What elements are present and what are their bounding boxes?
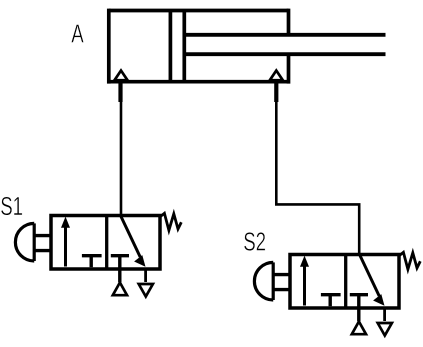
valve S1 return spring: [160, 213, 181, 230]
valve S2 right-box blocked port: [350, 295, 368, 322]
cylinder A piston: [170, 11, 184, 82]
valve S1 left-box blocked port: [82, 256, 102, 268]
valve S2 supply triangle port 1: [352, 322, 366, 335]
valve S2 exhaust stub port 3: [383, 308, 386, 321]
valve S1 right-box exhaust path arrow: [121, 217, 146, 267]
valve S1 right-box blocked port: [111, 256, 129, 283]
valve S2 left-box flow arrow: [300, 256, 309, 306]
valve S1 pushbutton actuator: [15, 223, 51, 261]
valve S2 return spring: [399, 252, 420, 269]
wire cylinder-left-port to S1 port 2: [120, 100, 123, 216]
valve S1 left-box flow arrow: [61, 217, 70, 267]
valve S2 body: [290, 255, 399, 309]
cylinder A body: [109, 9, 289, 84]
cylinder A left port: [115, 71, 128, 103]
valve S2 left-box blocked port: [321, 295, 341, 307]
valve S2 right-box exhaust path arrow: [360, 256, 385, 306]
svg-text:S2: S2: [243, 226, 266, 256]
label A: [71, 18, 84, 48]
label S2: [243, 226, 266, 256]
valve S1 body: [51, 216, 160, 270]
svg-text:A: A: [71, 18, 84, 48]
svg-text:S1: S1: [0, 191, 23, 221]
cylinder A piston rod: [184, 35, 385, 54]
valve S2 exhaust triangle port 3: [378, 323, 392, 336]
wire cylinder-right-port to S2 port 2: [276, 100, 359, 256]
valve S2 pushbutton actuator: [254, 262, 290, 300]
valve S1 exhaust stub port 3: [144, 269, 147, 282]
valve S1 supply triangle port 1: [113, 283, 127, 296]
label S1: [0, 191, 23, 221]
cylinder A right port: [270, 71, 283, 103]
valve S1 exhaust triangle port 3: [139, 284, 153, 297]
